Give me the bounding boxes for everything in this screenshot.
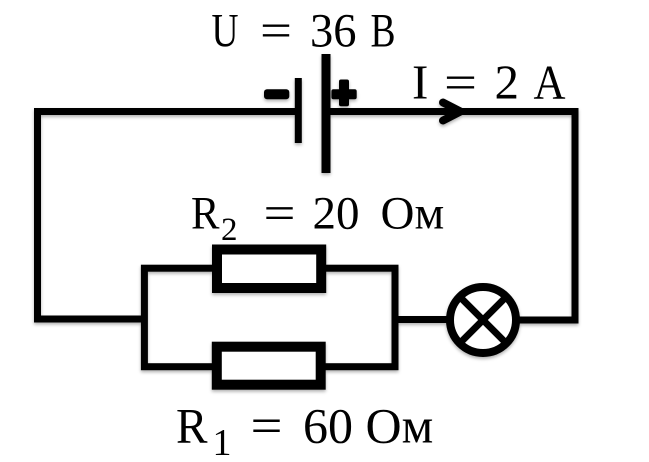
- svg-text:2: 2: [495, 55, 520, 110]
- parallel network frame (wires joining R1 and R2 branches): [144, 268, 395, 367]
- svg-text:R: R: [176, 397, 208, 453]
- svg-text:=: =: [251, 397, 283, 453]
- current arrow on top wire: [443, 103, 461, 121]
- resistor R1 body: [217, 347, 321, 385]
- battery positive plate (long): [322, 54, 331, 173]
- battery plus sign: [331, 80, 356, 107]
- label I = 2 A (current): [412, 55, 566, 110]
- svg-text:2: 2: [221, 212, 238, 248]
- svg-text:A: A: [534, 55, 567, 110]
- wire: top-right from battery positive plate, across top, down right side, to lamp right terminal: [326, 112, 575, 321]
- label U = 36 В (source voltage): [212, 5, 396, 58]
- svg-text:Ом: Ом: [366, 397, 434, 453]
- svg-text:U: U: [212, 5, 239, 58]
- wire: left loop from battery negative plate, across top-left, down left side, to parallel network: [38, 112, 299, 320]
- wire: stub from parallel network to lamp: [395, 316, 452, 323]
- svg-text:Ом: Ом: [381, 188, 445, 240]
- svg-text:=: =: [264, 188, 296, 240]
- svg-text:R: R: [191, 188, 220, 240]
- battery minus sign: [264, 89, 289, 99]
- svg-text:1: 1: [213, 422, 232, 462]
- svg-text:I: I: [412, 55, 428, 110]
- svg-text:20: 20: [313, 188, 360, 240]
- label R1 = 60 Ом: [176, 397, 433, 462]
- svg-text:=: =: [444, 55, 477, 110]
- svg-text:60: 60: [303, 397, 353, 453]
- label R2 = 20 Ом: [191, 188, 444, 249]
- resistor R2 body: [217, 250, 321, 289]
- svg-text:=: =: [260, 5, 292, 58]
- svg-text:В: В: [371, 5, 396, 58]
- svg-text:36: 36: [310, 5, 357, 58]
- lamp HL1 (circle with X): [450, 287, 516, 353]
- battery negative plate (short): [295, 78, 302, 143]
